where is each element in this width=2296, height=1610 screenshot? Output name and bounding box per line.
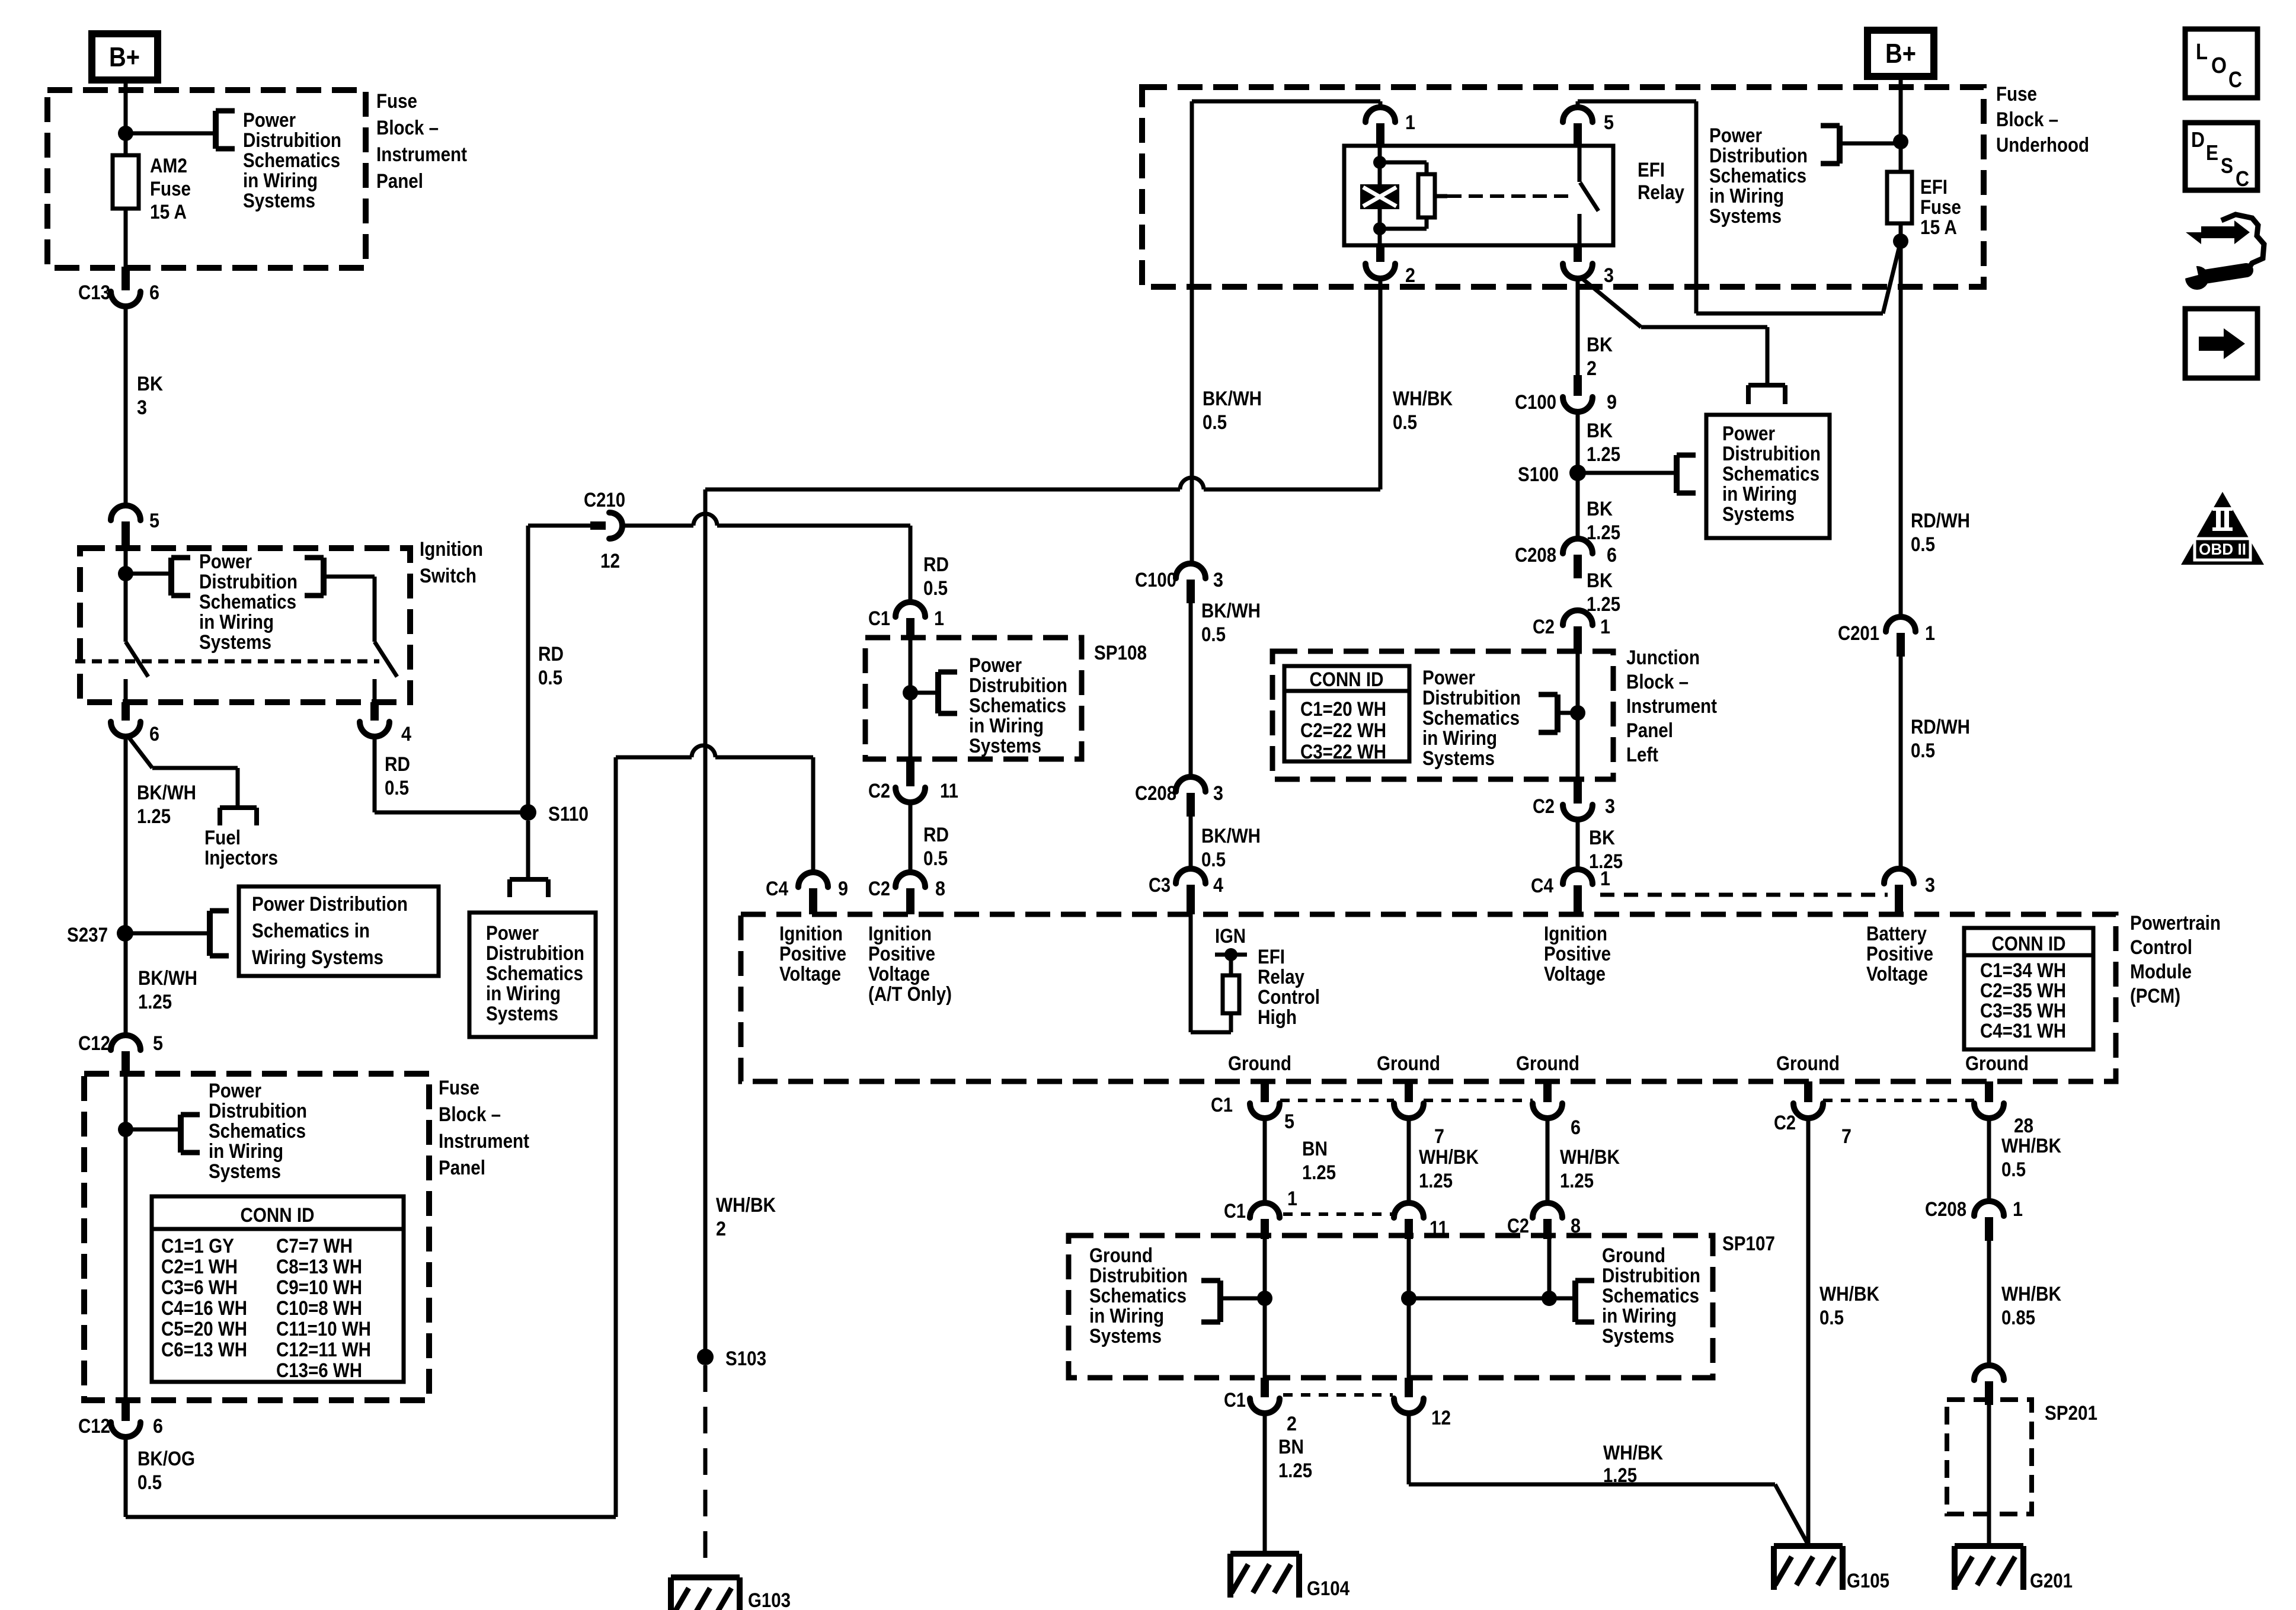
svg-text:C12: C12 xyxy=(78,1032,110,1055)
svg-text:C2: C2 xyxy=(868,878,890,900)
svg-text:2: 2 xyxy=(1287,1413,1297,1435)
svg-text:6: 6 xyxy=(153,1415,163,1438)
svg-text:S: S xyxy=(2221,153,2233,178)
svg-text:S237: S237 xyxy=(67,924,108,946)
svg-text:1: 1 xyxy=(1287,1188,1297,1210)
svg-text:BatteryPositiveVoltage: BatteryPositiveVoltage xyxy=(1866,923,1933,985)
svg-text:C: C xyxy=(2228,68,2242,92)
svg-text:C1: C1 xyxy=(868,607,890,630)
svg-text:C2: C2 xyxy=(1533,616,1555,638)
svg-text:C1: C1 xyxy=(1211,1094,1233,1116)
svg-text:G105: G105 xyxy=(1847,1570,1889,1592)
svg-text:7: 7 xyxy=(1841,1125,1851,1148)
svg-text:C: C xyxy=(2236,167,2249,191)
svg-text:C10=8 WH: C10=8 WH xyxy=(276,1297,362,1320)
svg-text:8: 8 xyxy=(935,878,945,900)
svg-text:D: D xyxy=(2191,127,2205,152)
svg-text:C208: C208 xyxy=(1135,782,1176,805)
svg-text:SP108: SP108 xyxy=(1094,642,1147,664)
svg-text:IgnitionPositiveVoltage: IgnitionPositiveVoltage xyxy=(779,923,846,985)
svg-text:9: 9 xyxy=(838,878,848,900)
svg-text:C2=1 WH: C2=1 WH xyxy=(161,1256,238,1278)
svg-text:2: 2 xyxy=(1405,264,1415,287)
svg-text:C3=35 WH: C3=35 WH xyxy=(1980,1000,2066,1022)
svg-text:1: 1 xyxy=(1600,616,1610,638)
svg-text:AM2Fuse15 A: AM2Fuse15 A xyxy=(150,155,191,223)
svg-text:3: 3 xyxy=(1213,569,1223,591)
svg-text:C2=22 WH: C2=22 WH xyxy=(1300,719,1386,742)
svg-text:C3: C3 xyxy=(1149,874,1171,897)
svg-text:5: 5 xyxy=(149,510,159,532)
svg-text:C11=10 WH: C11=10 WH xyxy=(276,1318,371,1340)
svg-text:B+: B+ xyxy=(109,41,140,72)
svg-text:5: 5 xyxy=(1604,111,1614,134)
svg-text:C210: C210 xyxy=(584,489,625,511)
svg-text:28: 28 xyxy=(2014,1115,2033,1137)
svg-text:G201: G201 xyxy=(2030,1570,2073,1592)
svg-text:G103: G103 xyxy=(748,1589,791,1610)
svg-text:S110: S110 xyxy=(548,803,589,825)
svg-text:C4: C4 xyxy=(1531,875,1553,897)
svg-text:6: 6 xyxy=(1607,544,1617,566)
svg-text:C1=34 WH: C1=34 WH xyxy=(1980,959,2066,982)
svg-text:7: 7 xyxy=(1434,1125,1444,1148)
svg-text:11: 11 xyxy=(940,780,958,802)
svg-text:C12: C12 xyxy=(78,1415,110,1438)
svg-text:Ground: Ground xyxy=(1776,1052,1840,1075)
svg-text:C1: C1 xyxy=(1224,1389,1246,1411)
svg-text:L: L xyxy=(2196,40,2208,65)
svg-text:C4=16 WH: C4=16 WH xyxy=(161,1297,247,1320)
svg-text:OBD II: OBD II xyxy=(2199,540,2246,558)
svg-text:IGN: IGN xyxy=(1215,925,1246,948)
svg-text:5: 5 xyxy=(1284,1110,1294,1133)
svg-text:O: O xyxy=(2211,53,2227,78)
svg-text:1: 1 xyxy=(934,607,944,630)
svg-text:IgnitionPositiveVoltage: IgnitionPositiveVoltage xyxy=(1544,923,1611,985)
svg-text:C7=7 WH: C7=7 WH xyxy=(276,1235,353,1257)
svg-text:C1=1 GY: C1=1 GY xyxy=(161,1235,234,1257)
svg-text:4: 4 xyxy=(1213,874,1223,897)
svg-text:C2: C2 xyxy=(868,780,890,802)
svg-text:C4=31 WH: C4=31 WH xyxy=(1980,1020,2066,1042)
svg-text:6: 6 xyxy=(1571,1116,1581,1139)
svg-text:6: 6 xyxy=(149,281,159,304)
svg-text:CONN ID: CONN ID xyxy=(1310,668,1384,691)
svg-text:C9=10 WH: C9=10 WH xyxy=(276,1276,362,1299)
svg-text:1: 1 xyxy=(1405,111,1415,134)
svg-text:C8=13 WH: C8=13 WH xyxy=(276,1256,362,1278)
svg-text:C208: C208 xyxy=(1515,544,1556,566)
svg-text:S100: S100 xyxy=(1518,463,1559,486)
svg-text:Ground: Ground xyxy=(1228,1052,1291,1075)
svg-text:Ground: Ground xyxy=(1377,1052,1440,1075)
svg-text:C201: C201 xyxy=(1838,622,1879,645)
svg-text:C12=11 WH: C12=11 WH xyxy=(276,1339,371,1361)
svg-text:1: 1 xyxy=(2013,1198,2023,1221)
svg-text:C208: C208 xyxy=(1925,1198,1966,1221)
svg-text:C2=35 WH: C2=35 WH xyxy=(1980,980,2066,1002)
svg-text:C1: C1 xyxy=(1224,1200,1246,1222)
svg-text:1: 1 xyxy=(1925,622,1935,645)
svg-text:C5=20 WH: C5=20 WH xyxy=(161,1318,247,1340)
svg-text:6: 6 xyxy=(149,723,159,745)
svg-text:Ground: Ground xyxy=(1965,1052,2029,1075)
svg-text:1: 1 xyxy=(1600,868,1610,890)
svg-text:C100: C100 xyxy=(1515,391,1556,414)
svg-text:C13: C13 xyxy=(78,281,110,304)
svg-text:3: 3 xyxy=(1605,795,1615,818)
svg-text:CONN ID: CONN ID xyxy=(1992,933,2066,955)
svg-text:9: 9 xyxy=(1607,391,1617,414)
svg-text:C13=6 WH: C13=6 WH xyxy=(276,1359,362,1382)
svg-text:C2: C2 xyxy=(1774,1112,1796,1134)
svg-text:Ground: Ground xyxy=(1516,1052,1579,1075)
svg-text:C100: C100 xyxy=(1135,569,1176,591)
svg-text:CONN ID: CONN ID xyxy=(241,1204,315,1227)
svg-text:12: 12 xyxy=(1431,1407,1451,1429)
svg-text:G104: G104 xyxy=(1307,1577,1350,1600)
svg-text:S103: S103 xyxy=(725,1347,766,1370)
svg-text:3: 3 xyxy=(1604,264,1614,287)
svg-text:12: 12 xyxy=(600,550,620,572)
svg-text:C4: C4 xyxy=(766,878,788,900)
svg-text:C3=6 WH: C3=6 WH xyxy=(161,1276,238,1299)
svg-text:C6=13 WH: C6=13 WH xyxy=(161,1339,247,1361)
svg-text:E: E xyxy=(2206,140,2218,165)
svg-text:SP107: SP107 xyxy=(1722,1233,1775,1255)
svg-text:B+: B+ xyxy=(1885,38,1916,69)
svg-text:3: 3 xyxy=(1213,782,1223,805)
svg-text:3: 3 xyxy=(1925,874,1935,897)
svg-text:C3=22 WH: C3=22 WH xyxy=(1300,741,1386,763)
svg-text:C1=20 WH: C1=20 WH xyxy=(1300,698,1386,721)
svg-text:4: 4 xyxy=(401,723,411,745)
svg-text:C2: C2 xyxy=(1533,795,1555,818)
svg-text:SP201: SP201 xyxy=(2045,1402,2097,1425)
svg-text:5: 5 xyxy=(153,1032,163,1055)
